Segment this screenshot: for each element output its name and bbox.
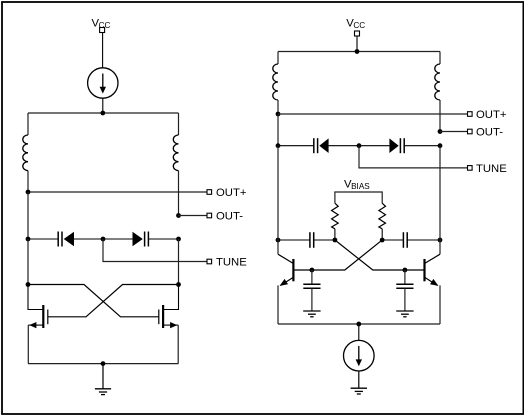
- junction varactor left (right circuit): [276, 143, 281, 148]
- transistor Q1: [278, 254, 293, 286]
- wire coupling cap row left outer: [278, 239, 310, 241]
- junction node A: [333, 238, 338, 243]
- wire left branch upper (right circuit): [277, 52, 279, 65]
- wire node B to C2: [382, 239, 403, 241]
- wire L3 to OUT+ node (right circuit): [277, 100, 279, 114]
- svg-text:CC: CC: [353, 21, 365, 30]
- net VCC label (right): [346, 18, 365, 30]
- junction cross node left: [26, 282, 31, 287]
- inductor L2: [173, 135, 178, 171]
- svg-text:TUNE: TUNE: [476, 163, 507, 175]
- terminal VCC (right): [355, 31, 360, 36]
- wire left branch to varactor row (right circuit): [277, 114, 279, 146]
- resistor R2: [379, 203, 386, 229]
- junction node B: [380, 238, 385, 243]
- junction varactor row right: [176, 237, 181, 242]
- wire M2 drain lead: [163, 285, 178, 310]
- terminal TUNE (left): [207, 259, 212, 264]
- inductor L4: [435, 64, 440, 100]
- terminal OUT+ (right): [468, 112, 473, 117]
- wire D2 to right branch: [148, 238, 178, 240]
- ground GND3 (C4): [396, 311, 413, 317]
- terminal OUT- (left): [207, 213, 212, 218]
- resistor R1: [332, 203, 339, 229]
- wire left branch to varactor row: [27, 192, 29, 239]
- wire D3 to center node (right circuit): [329, 145, 359, 147]
- inductor L3: [273, 64, 278, 100]
- svg-text:OUT-: OUT-: [216, 211, 243, 223]
- junction bottom rail (left): [101, 361, 106, 366]
- varactor D4: [389, 138, 404, 153]
- wire OUT- (left): [179, 215, 208, 217]
- wire varactor row left segment (right circuit): [278, 145, 314, 147]
- current source I1: [88, 68, 118, 98]
- wire Q1 collector lead: [277, 240, 279, 254]
- wire TUNE (left): [103, 239, 207, 262]
- junction cap row right (right circuit): [438, 238, 443, 243]
- wire rail to current source I2: [358, 324, 360, 340]
- svg-text:TUNE: TUNE: [216, 257, 247, 269]
- terminal TUNE (right): [468, 166, 473, 171]
- terminal OUT- (right): [468, 129, 473, 134]
- terminal VCC (left): [100, 28, 105, 33]
- junction top rail (right): [355, 49, 360, 54]
- transistor M2: [159, 305, 178, 328]
- wire D1 to center node: [74, 238, 103, 240]
- junction cross node right: [176, 282, 181, 287]
- wire Q2 collector lead: [439, 240, 441, 254]
- ground GND1: [95, 364, 111, 395]
- wire center node to D2: [103, 238, 133, 240]
- wire right branch to cross node: [178, 239, 180, 285]
- wire D4 to right branch (right circuit): [404, 145, 440, 147]
- transistor M1: [28, 305, 48, 328]
- transistor Q2: [425, 254, 441, 286]
- wire C1 to node A: [314, 239, 335, 241]
- junction varactor row left: [26, 237, 31, 242]
- wire Q2 emitter down: [439, 285, 441, 324]
- junction Q2 base bypass node: [403, 268, 408, 273]
- wire right branch mid (right circuit): [439, 146, 441, 240]
- svg-text:OUT+: OUT+: [216, 187, 247, 199]
- junction cap row left (right circuit): [276, 238, 281, 243]
- wire VCC stem (right): [356, 36, 358, 52]
- junction OUT+ node (right circuit): [276, 112, 281, 117]
- wire M2 source down: [177, 325, 179, 364]
- varactor D1: [58, 232, 74, 247]
- wire R1 to node A: [334, 229, 336, 240]
- wire top rail (left): [28, 112, 179, 114]
- ground GND4: [351, 388, 367, 394]
- wire M1 source down: [27, 325, 29, 364]
- wire current source to top rail (left): [102, 98, 104, 113]
- capacitor C2: [403, 232, 407, 248]
- varactor D2: [133, 232, 149, 247]
- ground GND2 (C3): [303, 311, 320, 317]
- junction Q1 base bypass node: [310, 268, 315, 273]
- wire cross-couple B to Q1 base: [294, 240, 383, 270]
- capacitor C4: [396, 270, 413, 311]
- wire left branch mid (right circuit): [277, 146, 279, 240]
- varactor D3: [314, 138, 329, 153]
- wire C2 to right branch: [407, 239, 440, 241]
- wire varactor row left segment: [28, 238, 58, 240]
- svg-text:OUT-: OUT-: [476, 127, 503, 139]
- wire VCC stem to current source (left): [102, 33, 104, 68]
- wire OUT+ (left): [28, 191, 207, 193]
- junction OUT- node (left): [176, 213, 181, 218]
- wire right branch upper (right circuit): [439, 52, 441, 65]
- wire R2 to node B: [381, 229, 383, 240]
- net VCC label (left): [92, 18, 111, 30]
- capacitor C3: [303, 270, 320, 311]
- wire center node to D4: [359, 145, 389, 147]
- wire L2 to OUT- node: [178, 171, 180, 216]
- svg-text:BIAS: BIAS: [351, 182, 370, 191]
- junction varactor right (right circuit): [438, 143, 443, 148]
- wire M1 drain lead: [28, 285, 43, 310]
- current source I2: [344, 340, 375, 371]
- junction varactor center (right circuit): [357, 143, 362, 148]
- terminal OUT+ (left): [207, 190, 212, 195]
- junction OUT- node (right circuit): [438, 129, 443, 134]
- wire Q1 emitter down: [277, 285, 279, 324]
- wire L1 to OUT+ node: [27, 171, 29, 192]
- junction varactor center (left): [101, 237, 106, 242]
- wire cross-couple right-drain to left-gate: [48, 285, 179, 317]
- wire I2 to ground: [358, 371, 360, 388]
- wire VBIAS tee: [335, 192, 382, 203]
- junction bottom rail (right circuit): [356, 322, 361, 327]
- wire right branch upper: [178, 113, 180, 135]
- wire L4 to OUT- node (right circuit): [439, 100, 441, 132]
- junction top rail (left): [100, 111, 105, 116]
- wire left branch upper: [27, 113, 29, 135]
- wire bottom rail (right circuit): [278, 323, 440, 325]
- inductor L1: [23, 135, 28, 171]
- wire left branch to cross node: [27, 239, 29, 285]
- capacitor C1: [310, 232, 314, 248]
- wire OUT+ (right circuit): [278, 113, 468, 115]
- wire TUNE (right circuit): [359, 146, 468, 168]
- wire cross-couple left-drain to right-gate: [28, 285, 159, 317]
- net VBIAS label: [344, 179, 370, 191]
- wire cross-couple A to Q2 base: [335, 240, 425, 270]
- wire top rail (right): [278, 51, 440, 53]
- wire bottom rail (left): [28, 363, 179, 365]
- wire OUT- (right circuit): [440, 131, 468, 133]
- junction OUT+ node (left): [26, 190, 31, 195]
- svg-text:OUT+: OUT+: [476, 109, 507, 121]
